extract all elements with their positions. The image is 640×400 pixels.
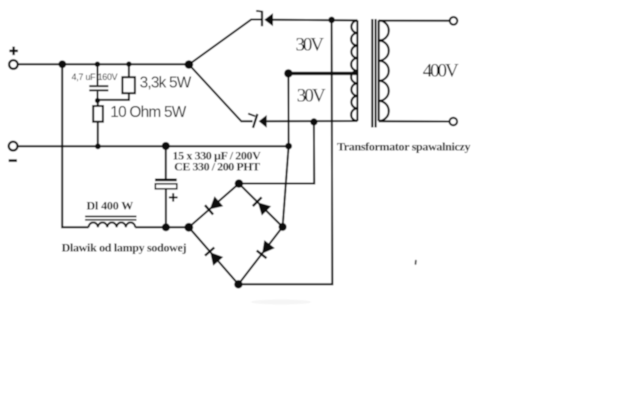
svg-text:Dlawik od lampy sodowej: Dlawik od lampy sodowej bbox=[62, 240, 187, 254]
svg-text:400V: 400V bbox=[423, 60, 459, 81]
svg-text:Dl 400 W: Dl 400 W bbox=[87, 198, 134, 212]
svg-text:30V: 30V bbox=[297, 85, 326, 106]
svg-text:Transformator spawalniczy: Transformator spawalniczy bbox=[337, 140, 471, 154]
svg-text:CE 330 / 200 PHT: CE 330 / 200 PHT bbox=[174, 159, 260, 173]
svg-text:10 Ohm 5W: 10 Ohm 5W bbox=[110, 104, 186, 121]
svg-text:3,3k 5W: 3,3k 5W bbox=[140, 75, 192, 92]
svg-text:30V: 30V bbox=[296, 35, 325, 56]
svg-text:4,7 uF 160V: 4,7 uF 160V bbox=[72, 72, 118, 82]
